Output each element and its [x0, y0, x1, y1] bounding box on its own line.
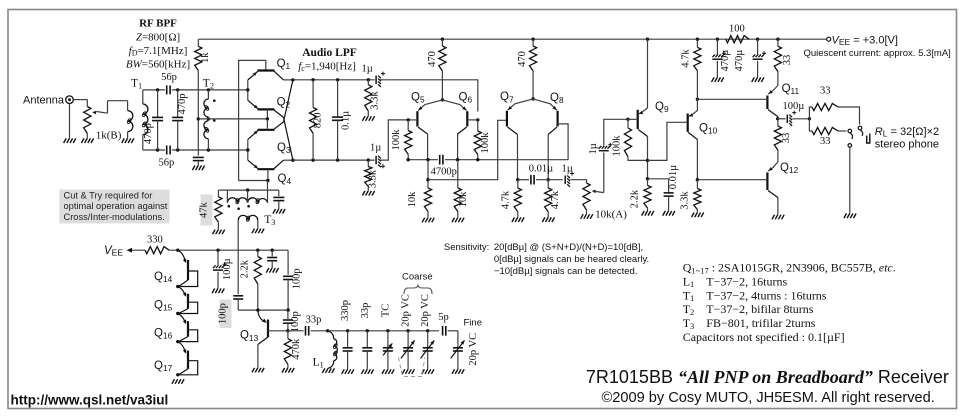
svg-text:0[dBµ] signals can be heared c: 0[dBµ] signals can be heared clearly. [494, 254, 649, 265]
svg-text:20p VC: 20p VC [401, 294, 412, 327]
svg-text:Capacitors not specified : 0.1: Capacitors not specified : 0.1[µF] [683, 330, 845, 344]
svg-text:100p: 100p [217, 303, 228, 324]
svg-text:RL = 32[Ω]×2: RL = 32[Ω]×2 [875, 126, 939, 139]
svg-text:5p: 5p [438, 312, 449, 323]
svg-text:1µ: 1µ [562, 164, 573, 175]
svg-text:fc=1,940[Hz]: fc=1,940[Hz] [298, 61, 356, 74]
svg-text:33: 33 [782, 55, 793, 66]
svg-text:Audio LPF: Audio LPF [302, 47, 357, 59]
svg-text:470µ: 470µ [734, 50, 745, 72]
svg-text:1µ: 1µ [370, 142, 381, 153]
svg-text:10k: 10k [458, 191, 469, 208]
svg-text:4.7k: 4.7k [501, 190, 512, 209]
svg-text:470k: 470k [291, 338, 302, 360]
svg-text:3.3k: 3.3k [370, 91, 381, 110]
svg-text:470: 470 [517, 51, 528, 67]
svg-text:56p: 56p [161, 72, 177, 83]
svg-text:©2009 by Cosy MUTO, JH5ESM. A: ©2009 by Cosy MUTO, JH5ESM. All right re… [602, 390, 935, 406]
svg-text:100µ: 100µ [783, 101, 805, 112]
svg-text:33: 33 [820, 136, 831, 147]
svg-text:20p VC: 20p VC [420, 294, 431, 327]
svg-text:4.7k: 4.7k [681, 49, 692, 68]
svg-text:http://www.qsl.net/va3iul: http://www.qsl.net/va3iul [11, 393, 169, 408]
svg-text:33p: 33p [360, 303, 371, 319]
svg-text:T3 FB−801, trifilar 2turns: T3 FB−801, trifilar 2turns [683, 316, 816, 331]
svg-text:0.1µ: 0.1µ [340, 111, 351, 130]
svg-text:7R1015BB “All PNP on Breadboar: 7R1015BB “All PNP on Breadboard” Receive… [586, 367, 949, 387]
svg-text:100µ: 100µ [222, 258, 233, 280]
svg-text:T2 T−37−2, bifilar 8turns: T2 T−37−2, bifilar 8turns [683, 302, 814, 317]
svg-text:Antenna: Antenna [23, 94, 65, 106]
svg-text:100k: 100k [391, 129, 402, 151]
svg-text:1µ: 1µ [588, 143, 599, 154]
svg-text:T1 T−37−2, 4turns : 16turn: T1 T−37−2, 4turns : 16turns [683, 288, 827, 303]
svg-text:470p: 470p [177, 94, 188, 115]
svg-text:fD=7.1[MHz]: fD=7.1[MHz] [129, 45, 188, 58]
svg-text:Coarse: Coarse [402, 272, 433, 283]
svg-text:100p: 100p [291, 268, 302, 289]
svg-text:0.01µ: 0.01µ [529, 164, 553, 175]
svg-text:1k(B): 1k(B) [96, 130, 122, 142]
svg-text:100k: 100k [480, 132, 491, 154]
svg-text:10k(A): 10k(A) [595, 208, 627, 220]
svg-text:Q1~17 : 2SA1015GR, 2N3906, BC5: Q1~17 : 2SA1015GR, 2N3906, BC557B, etc. [683, 261, 896, 276]
svg-text:2.2k: 2.2k [240, 259, 251, 278]
svg-text:Z=800[Ω]: Z=800[Ω] [136, 32, 180, 44]
svg-text:1µ: 1µ [362, 63, 373, 74]
svg-text:33p: 33p [306, 314, 322, 325]
svg-text:Fine: Fine [464, 317, 482, 328]
svg-text:TC: TC [380, 304, 391, 317]
svg-text:stereo phone: stereo phone [875, 139, 939, 151]
svg-text:330p: 330p [340, 300, 351, 321]
svg-text:20[dBµ] @ (S+N+D)/(N+D)=10[dB]: 20[dBµ] @ (S+N+D)/(N+D)=10[dB], [494, 242, 643, 253]
svg-text:330: 330 [147, 235, 163, 246]
svg-text:Quiescent current: approx. 5.3: Quiescent current: approx. 5.3[mA] [804, 48, 951, 59]
svg-text:0.01µ: 0.01µ [668, 165, 679, 189]
svg-text:100p: 100p [290, 311, 301, 332]
svg-text:4.7k: 4.7k [550, 190, 561, 209]
svg-text:VEE: VEE [104, 245, 123, 258]
svg-text:47k: 47k [199, 201, 210, 218]
svg-text:VEE = +3.0[V]: VEE = +3.0[V] [832, 34, 898, 47]
svg-text:RF BPF: RF BPF [139, 18, 177, 30]
svg-text:L1 T−37−2, 16turns: L1 T−37−2, 16turns [683, 274, 788, 289]
svg-text:10k: 10k [407, 191, 418, 208]
svg-text:470: 470 [427, 51, 438, 67]
svg-text:Cross/Inter-modulations.: Cross/Inter-modulations. [64, 212, 165, 222]
svg-text:3.3k: 3.3k [368, 169, 379, 188]
svg-text:33: 33 [781, 133, 792, 144]
svg-text:56p: 56p [159, 158, 175, 169]
svg-text:820: 820 [312, 113, 323, 129]
svg-text:470p: 470p [143, 123, 154, 144]
svg-text:optimal operation against: optimal operation against [64, 201, 168, 211]
svg-text:4700p: 4700p [431, 167, 457, 178]
svg-text:BW=560[kHz]: BW=560[kHz] [126, 59, 190, 71]
svg-text:20p VC: 20p VC [468, 333, 479, 366]
svg-text:−10[dBµ] signals can be detect: −10[dBµ] signals can be detected. [494, 266, 638, 277]
svg-text:100k: 100k [612, 135, 623, 157]
svg-text:3.3k: 3.3k [680, 191, 691, 210]
svg-text:Cut & Try required for: Cut & Try required for [64, 190, 153, 200]
svg-text:Sensitivity:: Sensitivity: [444, 242, 489, 253]
svg-text:33: 33 [820, 86, 831, 97]
svg-text:1k: 1k [200, 52, 211, 63]
svg-text:470µ: 470µ [720, 50, 731, 72]
svg-text:2.2k: 2.2k [630, 189, 641, 208]
svg-text:100: 100 [729, 24, 745, 35]
